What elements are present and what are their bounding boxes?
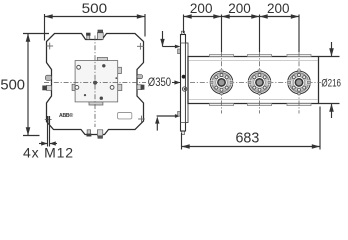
svg-text:Ø350: Ø350 bbox=[148, 75, 172, 89]
svg-text:200: 200 bbox=[228, 1, 251, 16]
svg-text:500: 500 bbox=[0, 77, 25, 94]
svg-text:683: 683 bbox=[236, 130, 260, 147]
svg-text:Ø216: Ø216 bbox=[321, 77, 341, 89]
svg-text:ABB®: ABB® bbox=[59, 112, 73, 119]
svg-text:4x M12: 4x M12 bbox=[23, 145, 73, 161]
svg-text:200: 200 bbox=[267, 1, 290, 16]
svg-text:200: 200 bbox=[190, 1, 213, 16]
svg-text:500: 500 bbox=[82, 0, 108, 16]
